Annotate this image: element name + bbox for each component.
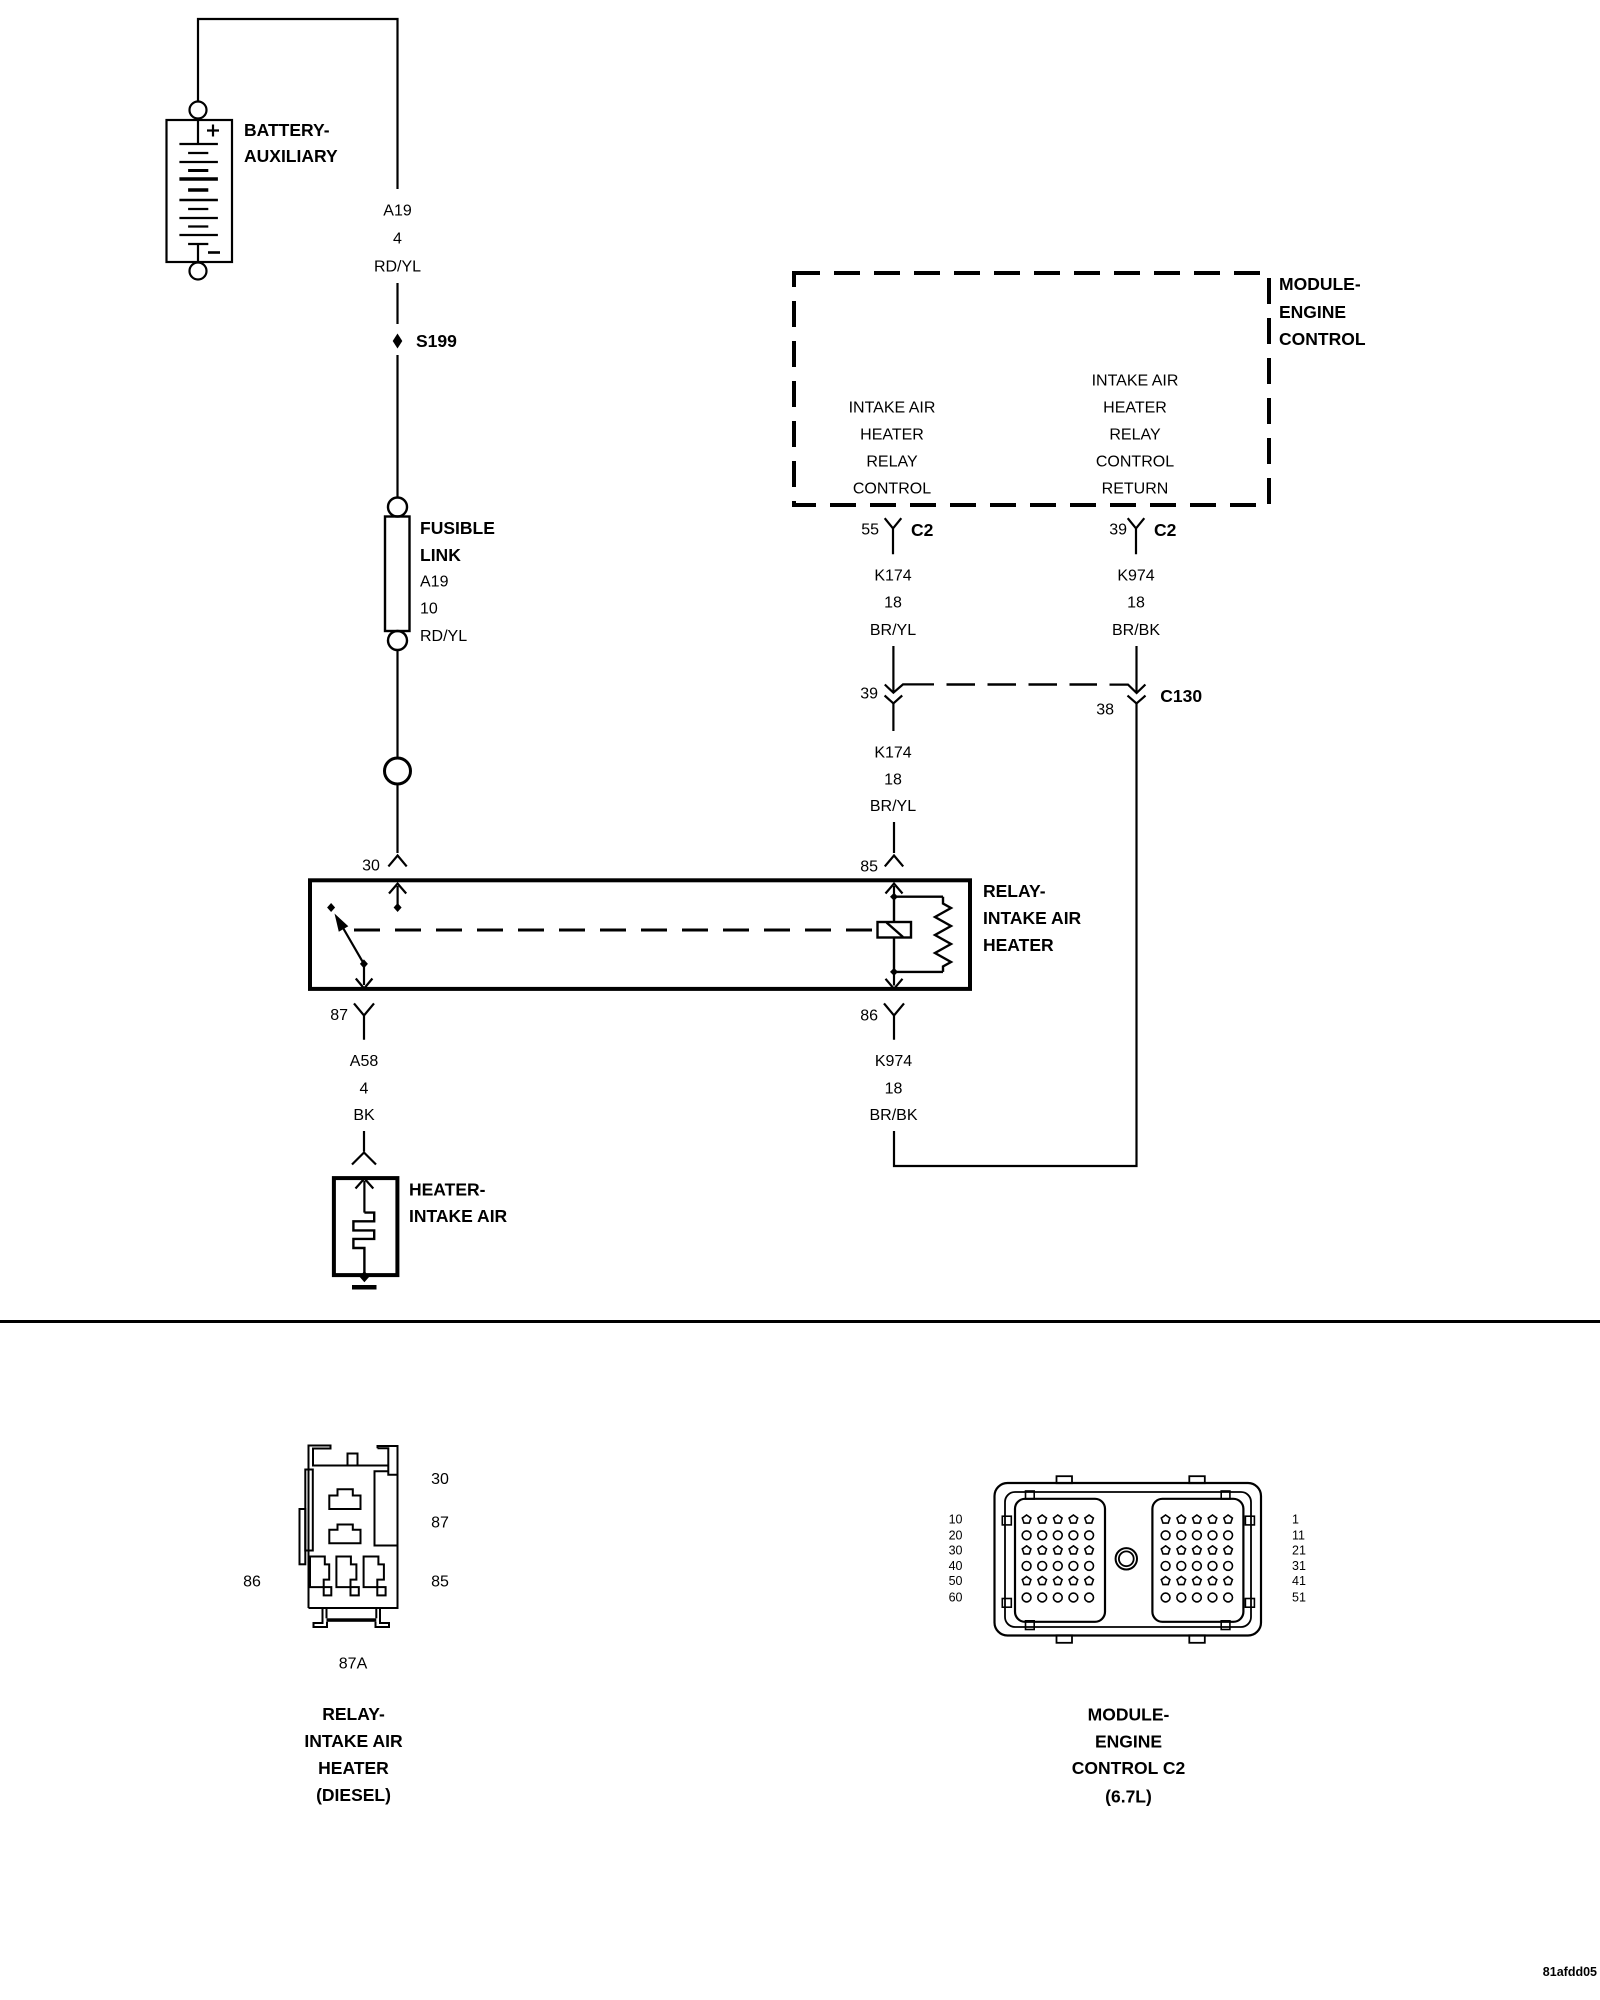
svg-text:20: 20 xyxy=(949,1528,963,1542)
svg-text:87A: 87A xyxy=(339,1655,368,1672)
heater connector chevron xyxy=(352,1153,376,1165)
svg-text:21: 21 xyxy=(1292,1543,1306,1557)
wire: ring to relay pin 30 xyxy=(396,784,398,853)
connector C130 pin 38 chevrons xyxy=(1110,685,1146,704)
connector C2 pin 39 xyxy=(1128,518,1145,554)
svg-text:AUXILIARY: AUXILIARY xyxy=(244,146,338,166)
svg-text:86: 86 xyxy=(860,1008,878,1025)
relay switch arm xyxy=(327,903,368,968)
svg-text:CONTROL: CONTROL xyxy=(1096,454,1174,471)
svg-text:BR/YL: BR/YL xyxy=(870,798,916,815)
svg-text:INTAKE AIR: INTAKE AIR xyxy=(409,1206,508,1226)
relay pin 85 terminal arrow xyxy=(886,884,903,897)
svg-text:C2: C2 xyxy=(1154,520,1177,540)
svg-text:HEATER-: HEATER- xyxy=(409,1180,486,1200)
svg-text:4: 4 xyxy=(360,1081,369,1098)
caption MODULE-ENGINE CONTROL C2 (6.7L) xyxy=(1072,1705,1186,1807)
svg-text:30: 30 xyxy=(949,1543,963,1557)
svg-text:LINK: LINK xyxy=(420,545,461,565)
connector C2 pin 55 xyxy=(885,518,902,554)
label: BATTERY-AUXILIARY xyxy=(244,120,338,166)
svg-text:BATTERY-: BATTERY- xyxy=(244,120,330,140)
module ECM dashed box xyxy=(794,273,1269,505)
splice S199 xyxy=(393,334,403,349)
relay box RELAY-INTAKE AIR xyxy=(310,880,970,989)
wire label K974 18 BR/BK (lower) xyxy=(869,1053,917,1124)
module connector pin grid xyxy=(1022,1515,1232,1602)
connector C130 pin 39 chevrons xyxy=(885,684,934,703)
svg-text:HEATER: HEATER xyxy=(318,1758,389,1778)
svg-text:85: 85 xyxy=(431,1574,449,1591)
caption RELAY-INTAKE AIR HEATER (DIESEL) xyxy=(304,1704,403,1805)
svg-text:39: 39 xyxy=(1109,522,1127,539)
connector 86 Y xyxy=(884,1003,904,1039)
svg-text:4: 4 xyxy=(393,231,402,248)
svg-text:1: 1 xyxy=(1292,1513,1299,1527)
wire: K974 into C130 xyxy=(1135,646,1137,692)
svg-text:38: 38 xyxy=(1096,702,1114,719)
svg-text:39: 39 xyxy=(860,686,878,703)
svg-text:11: 11 xyxy=(1292,1528,1305,1542)
svg-text:INTAKE AIR: INTAKE AIR xyxy=(304,1731,403,1751)
svg-text:87: 87 xyxy=(431,1515,449,1532)
svg-text:FUSIBLE: FUSIBLE xyxy=(420,518,495,538)
relay connector face view xyxy=(300,1446,398,1628)
svg-text:MODULE-: MODULE- xyxy=(1088,1705,1170,1725)
svg-text:RELAY: RELAY xyxy=(1109,427,1161,444)
svg-text:ENGINE: ENGINE xyxy=(1095,1731,1162,1751)
svg-text:CONTROL: CONTROL xyxy=(1279,329,1366,349)
svg-text:BK: BK xyxy=(353,1107,375,1124)
svg-text:CONTROL: CONTROL xyxy=(853,481,931,498)
label HEATER-INTAKE AIR xyxy=(409,1180,508,1227)
svg-text:INTAKE AIR: INTAKE AIR xyxy=(1092,373,1179,390)
relay coil resistor xyxy=(894,897,951,972)
wire: C130 to label (K174 lower) xyxy=(892,703,894,731)
svg-text:C2: C2 xyxy=(911,520,934,540)
fusible link xyxy=(385,498,410,651)
inline connector ring xyxy=(385,758,411,784)
svg-text:K174: K174 xyxy=(874,745,911,762)
svg-text:K974: K974 xyxy=(875,1053,912,1070)
svg-text:S199: S199 xyxy=(416,331,457,351)
jumper dashed at C130 xyxy=(947,683,1098,686)
label MODULE-ENGINE CONTROL xyxy=(1279,274,1366,349)
wire: 87 to heater xyxy=(363,1131,365,1152)
relay pin 86 terminal arrow xyxy=(886,972,903,989)
svg-text:87: 87 xyxy=(330,1007,348,1024)
svg-text:K974: K974 xyxy=(1117,568,1154,585)
battery BATTERY-AUXILIARY xyxy=(167,102,233,280)
wire: segment above S199 xyxy=(396,283,398,324)
svg-text:51: 51 xyxy=(1292,1591,1306,1605)
separator line xyxy=(0,1320,1600,1323)
svg-text:A58: A58 xyxy=(350,1053,379,1070)
svg-text:RELAY-: RELAY- xyxy=(983,881,1046,901)
svg-text:RELAY: RELAY xyxy=(866,454,918,471)
svg-text:31: 31 xyxy=(1292,1559,1306,1573)
svg-text:INTAKE AIR: INTAKE AIR xyxy=(983,908,1082,928)
svg-text:18: 18 xyxy=(885,1081,903,1098)
wire label A19 4 RD/YL xyxy=(374,203,421,276)
svg-text:RD/YL: RD/YL xyxy=(420,628,467,645)
svg-text:INTAKE AIR: INTAKE AIR xyxy=(849,400,936,417)
wire: K174 to relay 85 xyxy=(893,822,895,853)
heater HEATER-INTAKE AIR xyxy=(334,1178,398,1282)
label FUSIBLE LINK A19 10 RD/YL xyxy=(420,518,495,645)
wire label K174 18 BR/YL (lower) xyxy=(870,745,916,816)
svg-text:K174: K174 xyxy=(874,568,911,585)
wire label K974 18 BR/BK (upper) xyxy=(1112,568,1160,640)
svg-text:30: 30 xyxy=(431,1471,449,1488)
svg-text:BR/BK: BR/BK xyxy=(1112,622,1160,639)
label INTAKE AIR HEATER RELAY CONTROL RETURN (pin 39) xyxy=(1092,373,1179,498)
svg-text:50: 50 xyxy=(949,1574,963,1588)
svg-text:BR/YL: BR/YL xyxy=(870,622,916,639)
wire: fusible link to inline ring xyxy=(396,650,398,758)
pin row labels right 1-51 xyxy=(1292,1513,1306,1605)
pin row labels left 10-60 xyxy=(949,1513,963,1605)
ground xyxy=(352,1285,377,1290)
svg-text:10: 10 xyxy=(420,601,438,618)
wire label A58 4 BK xyxy=(350,1053,379,1124)
svg-text:RD/YL: RD/YL xyxy=(374,259,421,276)
svg-text:85: 85 xyxy=(860,859,878,876)
wire: K974 long return to relay 86 xyxy=(894,703,1137,1166)
svg-text:ENGINE: ENGINE xyxy=(1279,302,1346,322)
svg-text:55: 55 xyxy=(861,522,879,539)
svg-text:MODULE-: MODULE- xyxy=(1279,274,1361,294)
svg-text:HEATER: HEATER xyxy=(1103,400,1167,417)
relay actuation dashed link xyxy=(354,929,878,932)
wire label K174 18 BR/YL (upper) xyxy=(870,568,916,640)
svg-text:BR/BK: BR/BK xyxy=(869,1107,917,1124)
svg-text:10: 10 xyxy=(949,1513,963,1527)
svg-text:RETURN: RETURN xyxy=(1102,481,1169,498)
module connector C2 face view xyxy=(995,1476,1262,1643)
relay coil box xyxy=(878,922,912,938)
svg-text:40: 40 xyxy=(949,1559,963,1573)
svg-text:C130: C130 xyxy=(1160,686,1202,706)
svg-text:(DIESEL): (DIESEL) xyxy=(316,1785,391,1805)
svg-text:RELAY-: RELAY- xyxy=(322,1704,385,1724)
svg-text:18: 18 xyxy=(884,772,902,789)
svg-text:HEATER: HEATER xyxy=(860,427,924,444)
label RELAY-INTAKE AIR xyxy=(983,881,1082,955)
svg-text:A19: A19 xyxy=(420,574,449,591)
svg-text:30: 30 xyxy=(362,858,380,875)
connector pin 85 chevron xyxy=(885,856,903,867)
wire: K174 into C130 xyxy=(892,646,894,692)
svg-text:18: 18 xyxy=(884,595,902,612)
label INTAKE AIR HEATER RELAY CONTROL (pin 55) xyxy=(849,400,936,498)
svg-text:(6.7L): (6.7L) xyxy=(1105,1787,1152,1807)
svg-text:CONTROL C2: CONTROL C2 xyxy=(1072,1758,1186,1778)
wire: S199 to fusible link xyxy=(396,355,398,498)
svg-text:86: 86 xyxy=(243,1574,261,1591)
wire: battery positive feed to S199 xyxy=(198,19,398,189)
svg-text:81afdd05: 81afdd05 xyxy=(1543,1965,1597,1979)
connector 87 Y xyxy=(354,1003,374,1039)
relay pin 87 terminal arrow xyxy=(356,964,373,989)
svg-text:HEATER: HEATER xyxy=(983,935,1054,955)
svg-text:A19: A19 xyxy=(383,203,412,220)
svg-text:41: 41 xyxy=(1292,1574,1306,1588)
connector pin 30 chevron xyxy=(388,856,406,867)
relay pin 30 terminal arrow xyxy=(389,884,406,912)
svg-text:18: 18 xyxy=(1127,595,1145,612)
svg-text:60: 60 xyxy=(949,1591,963,1605)
